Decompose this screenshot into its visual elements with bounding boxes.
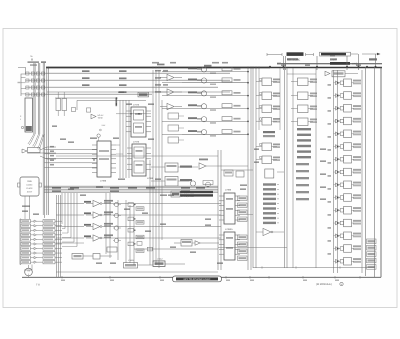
svg-text:L7493: L7493 xyxy=(225,189,232,192)
svg-text:ASSY: ASSY xyxy=(27,191,33,194)
svg-text:PLATE: PLATE xyxy=(26,187,33,190)
svg-text:L7490: L7490 xyxy=(147,177,154,180)
svg-text:L7493A: L7493A xyxy=(225,228,233,231)
svg-text:L7412: L7412 xyxy=(157,258,163,261)
svg-text:TONE: TONE xyxy=(98,117,104,120)
svg-text:GND: GND xyxy=(27,180,32,183)
svg-text:T-8: T-8 xyxy=(36,284,40,287)
svg-text:KEY TELEPHONE LOGIC: KEY TELEPHONE LOGIC xyxy=(184,278,211,281)
svg-text:1: 1 xyxy=(20,118,21,121)
svg-text:LOGIC: LOGIC xyxy=(26,184,33,187)
svg-text:NO XX: NO XX xyxy=(98,114,105,117)
svg-text:L7490: L7490 xyxy=(100,180,107,183)
svg-text:L7493: L7493 xyxy=(128,259,134,262)
svg-text:L7473: L7473 xyxy=(133,104,140,107)
svg-text:L7473: L7473 xyxy=(133,141,140,144)
svg-text:(M MODULE): (M MODULE) xyxy=(316,283,332,286)
